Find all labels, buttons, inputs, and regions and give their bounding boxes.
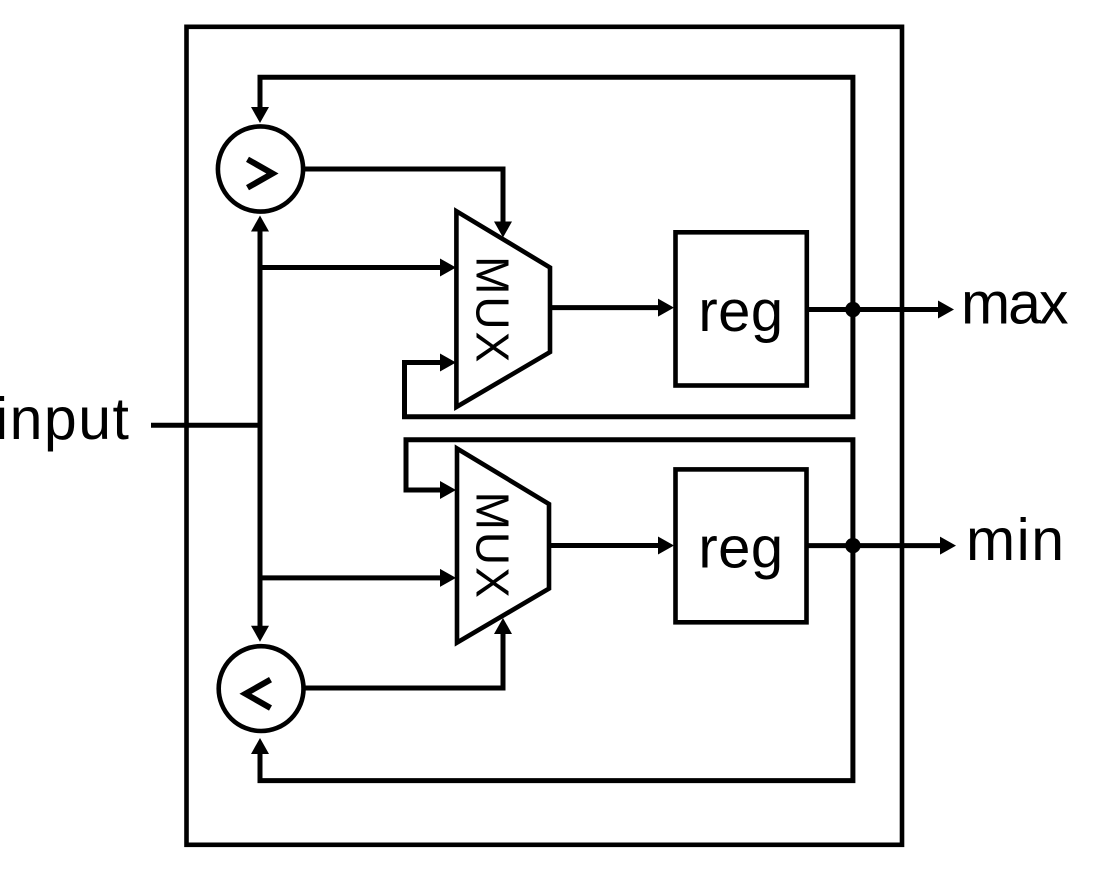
wire LT select to min MUX xyxy=(303,634,503,688)
wire max top feedback xyxy=(260,77,853,309)
wire max mux feedback xyxy=(405,310,853,417)
wire tap to min MUX xyxy=(258,575,441,580)
comparator GT circle xyxy=(218,126,303,211)
mux max trapezoid xyxy=(456,211,550,407)
wire GT select to max MUX xyxy=(303,169,503,222)
wire input bus vertical xyxy=(258,228,263,628)
reg min box xyxy=(676,469,807,622)
comparator LT circle xyxy=(219,646,304,731)
reg max box xyxy=(676,232,807,385)
wire min bottom feedback xyxy=(260,546,853,781)
svg-text:MUX: MUX xyxy=(466,256,518,364)
svg-text:MUX: MUX xyxy=(466,492,518,600)
bus arrow down into comparator LT xyxy=(251,626,269,642)
svg-text:reg: reg xyxy=(698,279,783,344)
junction min xyxy=(845,538,860,553)
svg-text:input: input xyxy=(0,386,130,452)
bus arrow up into comparator GT xyxy=(251,216,269,232)
wire max reg out xyxy=(808,307,938,312)
outer box xyxy=(187,27,903,845)
junction max xyxy=(845,302,860,317)
svg-text:max: max xyxy=(961,270,1068,336)
wire tap to max MUX xyxy=(258,265,441,270)
mux min trapezoid xyxy=(457,449,549,643)
wire max MUX out to reg xyxy=(552,305,658,310)
svg-text:min: min xyxy=(966,507,1066,573)
wire min reg out xyxy=(807,543,940,548)
wire min MUX out to reg xyxy=(551,543,658,548)
wire min mux feedback xyxy=(406,440,853,546)
wire input xyxy=(151,423,262,428)
svg-text:reg: reg xyxy=(698,516,783,581)
comparator LT glyph xyxy=(246,680,271,708)
comparator GT glyph xyxy=(248,159,273,187)
